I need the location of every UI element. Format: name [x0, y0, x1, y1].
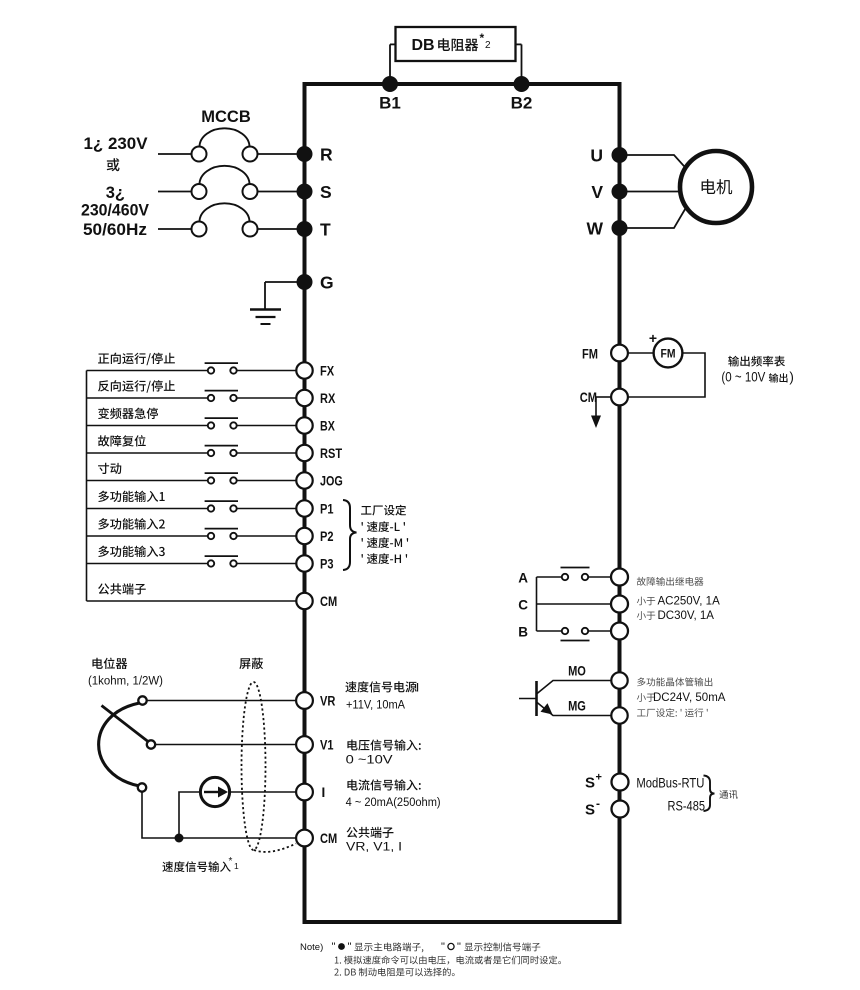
label 公共端子 analog	[347, 827, 394, 838]
relay contact A left	[562, 574, 568, 580]
label 电流信号输入	[347, 779, 420, 790]
terminal P2	[296, 528, 312, 544]
MCCB pole S left contact	[192, 184, 207, 199]
wire switch to RX	[237, 397, 297, 399]
terminal CM digital	[296, 593, 312, 609]
potentiometer wiper	[102, 706, 149, 742]
svg-text:ModBus-RTU: ModBus-RTU	[636, 776, 704, 791]
input label 故障复位	[98, 435, 146, 446]
wire G to earth	[265, 281, 297, 283]
wire bus to P1 switch	[87, 508, 209, 510]
terminal CM output	[611, 389, 628, 406]
svg-text:P2: P2	[320, 529, 334, 544]
relay contact A right	[582, 574, 588, 580]
switch RST bar	[205, 445, 238, 447]
terminal T	[297, 221, 313, 237]
terminal R	[297, 146, 313, 162]
label speed-M	[362, 537, 409, 548]
terminal W	[612, 220, 628, 236]
wire A row	[537, 576, 563, 578]
wire FM to meter	[628, 352, 654, 354]
digital input common bus wire	[86, 371, 88, 602]
wire switch to P2	[237, 535, 297, 537]
wire switch to P3	[237, 563, 297, 565]
svg-text:DC30V, 1A: DC30V, 1A	[658, 610, 715, 622]
wire mains lead S	[158, 191, 191, 193]
svg-text:3¿: 3¿	[106, 184, 125, 202]
switch BX left contact	[208, 422, 214, 428]
label speed-L	[362, 521, 405, 532]
switch P1 bar	[205, 500, 238, 502]
switch RX right contact	[230, 395, 236, 401]
svg-text:CM: CM	[320, 831, 337, 846]
label 屏蔽	[239, 658, 263, 669]
svg-text:MCCB: MCCB	[201, 108, 251, 126]
input label 多功能输入2	[98, 518, 165, 529]
switch P3 right contact	[230, 560, 236, 566]
switch P2 right contact	[230, 533, 236, 539]
current source circle	[200, 777, 229, 806]
svg-text:50/60Hz: 50/60Hz	[83, 221, 147, 239]
svg-text:1: 1	[234, 861, 239, 871]
wire switch to FX	[237, 370, 297, 372]
switch JOG left contact	[208, 477, 214, 483]
wire VR	[147, 700, 297, 702]
svg-text:P1: P1	[320, 502, 334, 517]
motor circle	[680, 151, 752, 223]
wire bus to P2 switch	[87, 535, 209, 537]
wire switch to P1	[237, 508, 297, 510]
terminal U	[612, 147, 628, 163]
wire bus to JOG switch	[87, 480, 209, 482]
switch RST right contact	[230, 450, 236, 456]
brace P1-P3 factory setting	[343, 500, 357, 570]
terminal B2	[514, 76, 530, 92]
transistor Q1 base lead	[519, 698, 537, 700]
input label 寸动	[98, 463, 121, 474]
label 工厂设定 运行	[637, 708, 708, 717]
svg-text:*: *	[480, 31, 485, 45]
inverter main box outline	[305, 84, 620, 922]
terminal JOG	[296, 472, 312, 488]
potentiometer mid contact	[147, 740, 155, 748]
svg-text:Note): Note)	[300, 942, 323, 953]
svg-text:FX: FX	[320, 364, 334, 379]
MCCB pole S arc	[200, 166, 250, 184]
motor label 电机	[702, 179, 733, 194]
svg-text:VR, V1, I: VR, V1, I	[346, 840, 402, 854]
terminal FX	[296, 362, 312, 378]
terminal RST	[296, 445, 312, 461]
svg-text:S: S	[320, 182, 332, 202]
svg-text:S: S	[585, 775, 595, 792]
svg-text:B: B	[518, 625, 528, 640]
svg-text:V1: V1	[320, 738, 334, 753]
wire bus to RX switch	[87, 397, 209, 399]
terminal S	[297, 184, 313, 200]
switch FX bar	[205, 362, 238, 364]
terminal P1	[296, 500, 312, 516]
shield ellipse	[242, 682, 266, 850]
input label 多功能输入1	[98, 491, 164, 502]
svg-text:FM: FM	[582, 347, 598, 362]
MCCB pole T right contact	[243, 222, 258, 237]
relay contact B left	[562, 628, 568, 634]
svg-text:A: A	[518, 571, 528, 586]
FM meter circle	[654, 339, 683, 368]
terminal CM analog	[296, 830, 313, 847]
DB resistor box	[396, 27, 516, 61]
switch P1 left contact	[208, 505, 214, 511]
wire MCCB to R	[258, 153, 298, 155]
transistor Q1 emitter	[537, 702, 612, 716]
wire bus to FX switch	[87, 370, 209, 372]
relay contact A bar	[561, 567, 590, 569]
svg-text:U: U	[590, 145, 603, 165]
MCCB pole T left contact	[192, 222, 207, 237]
terminal S-	[612, 801, 629, 818]
wire CM down arrow	[596, 396, 611, 398]
svg-text:CM: CM	[580, 390, 597, 405]
MCCB pole S right contact	[243, 184, 258, 199]
terminal BX	[296, 417, 312, 433]
wire U to motor	[627, 155, 688, 170]
terminal I	[296, 784, 313, 801]
svg-text:FM: FM	[661, 347, 676, 361]
wire switch to JOG	[237, 480, 297, 482]
wire bus to CM	[87, 600, 297, 602]
switch P3 left contact	[208, 560, 214, 566]
brace comms	[704, 776, 715, 812]
terminal MG	[611, 707, 627, 723]
wire current source to I	[230, 791, 297, 793]
wire V1	[155, 744, 296, 746]
transistor Q1 base bar	[535, 681, 538, 716]
terminal C	[611, 596, 628, 613]
switch P2 bar	[205, 528, 238, 530]
wire B to terminal	[588, 630, 611, 632]
svg-text:230/460V: 230/460V	[81, 202, 149, 220]
label AC250V rating	[637, 597, 655, 606]
MCCB pole R right contact	[243, 147, 258, 162]
svg-text:*: *	[229, 856, 233, 867]
svg-text:B1: B1	[379, 94, 401, 113]
wire MCCB to S	[258, 191, 298, 193]
label DC24V rating	[637, 693, 655, 702]
label 速度信号输入 note	[162, 861, 230, 872]
MCCB pole R arc	[200, 128, 250, 146]
svg-text:R: R	[320, 144, 333, 164]
wire B row	[537, 630, 563, 632]
wire junction to current source	[179, 792, 200, 838]
relay contact B right	[582, 628, 588, 634]
wire A to terminal	[588, 576, 611, 578]
input label 反向运行/停止	[98, 380, 175, 393]
label 速度信号电源	[345, 681, 416, 692]
wire FM meter to CM	[628, 353, 705, 397]
MCCB pole R left contact	[192, 147, 207, 162]
svg-text:): )	[789, 370, 794, 385]
svg-text:V: V	[591, 182, 603, 202]
wire mains lead R	[158, 153, 191, 155]
svg-text:0 ~10V: 0 ~10V	[346, 753, 394, 767]
input label 公共端子	[98, 583, 146, 594]
terminal S+	[612, 774, 629, 791]
switch RX left contact	[208, 395, 214, 401]
svg-text:DC24V, 50mA: DC24V, 50mA	[653, 692, 726, 704]
wire bus to RST switch	[87, 452, 209, 454]
svg-text:": "	[457, 941, 461, 953]
switch P3 bar	[205, 555, 238, 557]
input label 多功能输入3	[98, 546, 164, 557]
wire pot bottom to CM	[142, 792, 296, 839]
label supply or	[107, 158, 120, 171]
potentiometer top contact	[138, 696, 146, 704]
svg-text:RS-485: RS-485	[668, 799, 706, 814]
svg-text:C: C	[518, 598, 528, 613]
svg-text:RX: RX	[320, 391, 335, 406]
note line 2	[335, 956, 561, 965]
MCCB pole T arc	[200, 203, 250, 221]
svg-text:P3: P3	[320, 557, 334, 572]
relay contact B bar	[561, 640, 590, 642]
terminal VR	[296, 692, 313, 709]
svg-text:S: S	[585, 802, 595, 819]
svg-text:(1kohm, 1/2W): (1kohm, 1/2W)	[88, 674, 163, 688]
switch JOG right contact	[230, 477, 236, 483]
terminal G	[297, 274, 313, 290]
wire bus to BX switch	[87, 425, 209, 427]
wire B2 to DB resistor	[516, 43, 522, 45]
svg-text:G: G	[320, 272, 334, 292]
input label 变频器急停	[98, 408, 158, 419]
svg-text:2: 2	[485, 40, 491, 51]
terminal V1	[296, 736, 313, 753]
label speed-H	[362, 553, 408, 564]
svg-text:+11V, 10mA: +11V, 10mA	[346, 698, 406, 712]
terminal A	[611, 569, 628, 586]
svg-text:JOG: JOG	[320, 474, 343, 489]
svg-text:": "	[348, 941, 352, 953]
svg-text:BX: BX	[320, 419, 335, 434]
svg-text:": "	[441, 941, 445, 953]
junction dot analog CM	[175, 834, 184, 843]
wire W to motor	[627, 205, 688, 228]
terminal RX	[296, 390, 312, 406]
wire switch to BX	[237, 425, 297, 427]
wire switch to RST	[237, 452, 297, 454]
switch RX bar	[205, 390, 238, 392]
label 故障输出继电器	[637, 577, 704, 586]
relay connector bus	[536, 577, 538, 631]
switch FX right contact	[230, 367, 236, 373]
svg-text:1¿ 230V: 1¿ 230V	[84, 135, 148, 153]
potentiometer arc	[99, 703, 140, 786]
svg-text:B2: B2	[511, 94, 533, 113]
label 通讯	[719, 790, 737, 799]
wire B1 to DB resistor	[390, 43, 396, 45]
terminal V	[612, 184, 628, 200]
terminal B1	[382, 76, 398, 92]
switch RST left contact	[208, 450, 214, 456]
wire V to motor	[627, 191, 680, 193]
svg-text:+: +	[596, 772, 602, 784]
svg-text:W: W	[586, 218, 603, 238]
potentiometer bottom contact	[138, 783, 146, 791]
switch BX right contact	[230, 422, 236, 428]
input label 正向运行/停止	[98, 353, 175, 366]
transistor Q1 collector	[537, 681, 612, 695]
wire C row	[537, 603, 612, 605]
svg-text:CM: CM	[320, 594, 337, 609]
switch P2 left contact	[208, 533, 214, 539]
label 电压信号输入	[347, 739, 420, 750]
svg-text:MO: MO	[568, 664, 586, 679]
svg-text:I: I	[322, 785, 326, 800]
label 输出频率表	[728, 356, 785, 367]
svg-text:": "	[332, 941, 336, 953]
svg-text:T: T	[320, 219, 331, 239]
label 电位器	[92, 658, 127, 669]
switch FX left contact	[208, 367, 214, 373]
svg-text:-: -	[596, 797, 600, 811]
terminal FM	[611, 345, 628, 362]
label 工厂设定	[361, 505, 406, 516]
svg-text:MG: MG	[568, 699, 586, 714]
label DC30V rating	[637, 611, 655, 620]
label 多功能晶体管输出	[637, 677, 712, 686]
svg-text:4 ~ 20mA(250ohm): 4 ~ 20mA(250ohm)	[346, 795, 441, 809]
earth ground symbol	[250, 308, 281, 311]
terminal MO	[611, 672, 627, 688]
svg-text:RST: RST	[320, 446, 343, 461]
svg-text:DB: DB	[412, 37, 435, 54]
switch JOG bar	[205, 472, 238, 474]
wire mains lead T	[158, 228, 191, 230]
wire bus to P3 switch	[87, 563, 209, 565]
svg-text:VR: VR	[320, 694, 336, 709]
note line 3	[334, 968, 454, 977]
switch P1 right contact	[230, 505, 236, 511]
switch BX bar	[205, 417, 238, 419]
current source arrow	[204, 791, 218, 793]
svg-text:AC250V, 1A: AC250V, 1A	[658, 596, 721, 608]
wire MCCB to T	[258, 228, 298, 230]
shield drain to CM	[254, 844, 296, 852]
terminal P3	[296, 555, 312, 571]
svg-text:(0 ~ 10V: (0 ~ 10V	[721, 370, 765, 385]
terminal B	[611, 623, 628, 640]
